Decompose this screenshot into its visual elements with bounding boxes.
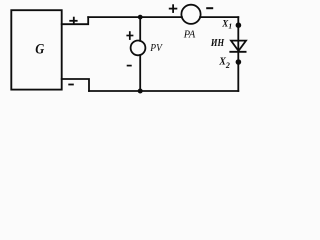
minus sign at PA: [206, 7, 213, 9]
svg-text:ИН: ИН: [210, 37, 224, 49]
minus sign at PV: [127, 65, 132, 67]
plus sign at G terminal: [69, 17, 77, 25]
voltmeter PV circle: [131, 41, 146, 56]
generator G box: [11, 10, 61, 89]
node junction dot top of PV branch: [138, 15, 143, 20]
minus sign at G terminal: [68, 84, 74, 86]
wire top rail right segment: [200, 16, 238, 18]
ammeter PA circle: [181, 5, 200, 24]
svg-text:PA: PA: [183, 28, 196, 40]
wire top rail left segment: [88, 16, 182, 18]
terminal X2 dot: [236, 59, 242, 65]
wire from G plus terminal to top rail step: [62, 17, 88, 24]
wire PV branch lower: [139, 55, 141, 91]
wire bottom rail: [89, 90, 238, 92]
svg-text:PV: PV: [149, 42, 163, 54]
plus sign at PV: [126, 31, 133, 40]
svg-text:G: G: [35, 41, 44, 57]
wire from G minus terminal to bottom rail step: [62, 79, 89, 91]
node junction dot bottom of PV branch: [138, 89, 143, 94]
wire right vertical from top rail to bottom rail: [237, 17, 239, 91]
terminal X1 dot: [236, 22, 242, 28]
diode VD cathode bar: [230, 51, 245, 53]
diode VD triangle: [231, 41, 246, 51]
plus sign at PA: [169, 4, 178, 13]
wire PV branch upper: [139, 17, 141, 41]
